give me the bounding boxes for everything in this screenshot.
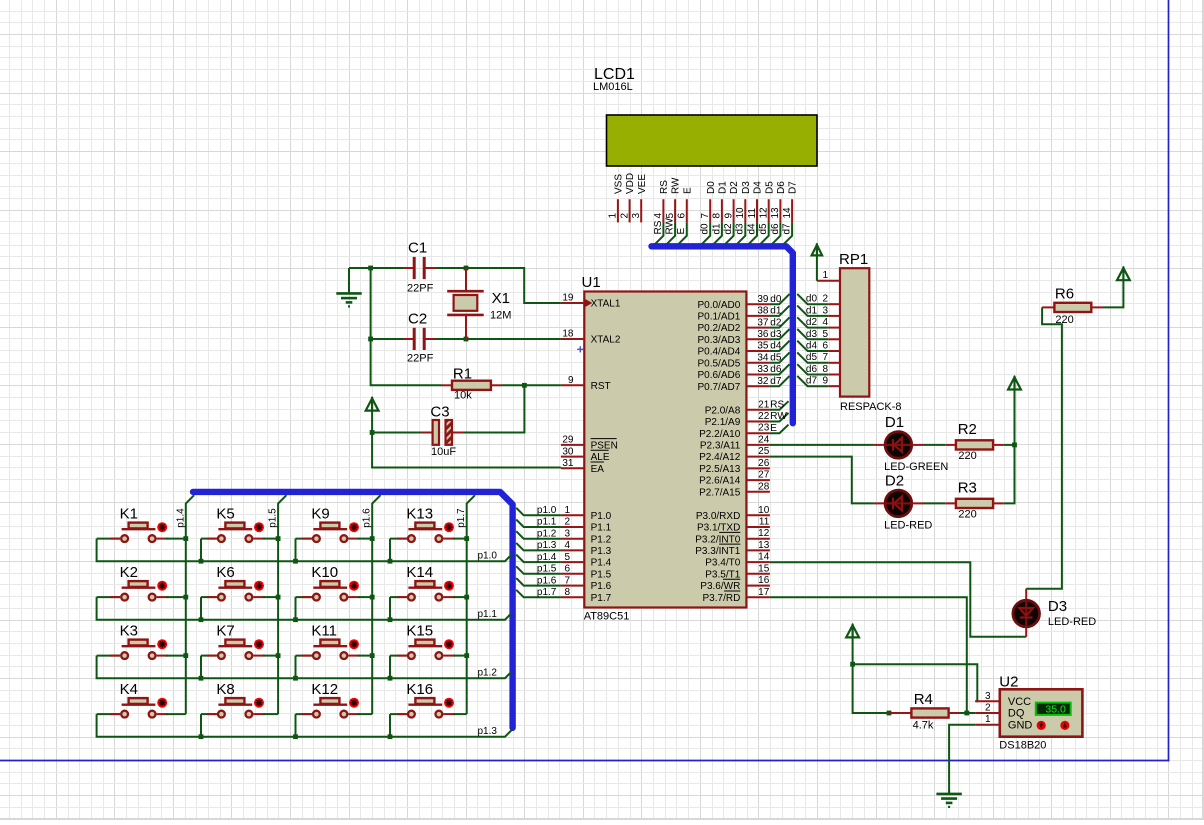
wire net p1.1: bus to U1 P1.1 — [516, 520, 561, 528]
svg-text:XTAL2: XTAL2 — [591, 335, 621, 346]
svg-text:10uF: 10uF — [431, 446, 456, 458]
svg-text:p1.1: p1.1 — [537, 517, 557, 528]
wire net d1: U1 P0.1 to bus — [770, 306, 790, 316]
svg-text:P2.5/A13: P2.5/A13 — [699, 464, 741, 475]
U1 pin 35 P0.4/AD4 — [697, 341, 769, 358]
svg-text:XTAL1: XTAL1 — [591, 299, 621, 310]
junction: R2/VCC rail — [1012, 443, 1017, 448]
U1 pin 1 P1.0 — [561, 505, 612, 522]
junction K16 left/row — [388, 734, 393, 739]
wire net p1.6: keypad column 3 — [372, 495, 380, 714]
RP1 pin 3 — [822, 305, 840, 316]
button K7 — [201, 622, 278, 678]
junction: C1/X1 top — [464, 266, 469, 271]
RP1 pin 6 — [822, 341, 840, 352]
U1 pin 19 XTAL1 — [561, 293, 621, 310]
svg-text:P0.0/AD0: P0.0/AD0 — [697, 300, 740, 311]
svg-text:14: 14 — [758, 552, 770, 563]
svg-text:D4: D4 — [753, 181, 764, 194]
svg-text:9: 9 — [822, 376, 828, 387]
svg-text:D3: D3 — [741, 181, 752, 194]
wire: U1 P3.7 pin17 to DQ — [770, 597, 975, 713]
led D1 LED-GREEN — [874, 414, 948, 473]
U1 pin 16 P3.6/WR — [700, 575, 770, 592]
svg-text:9: 9 — [568, 375, 574, 386]
svg-text:P3.0/RXD: P3.0/RXD — [696, 511, 740, 522]
op U1 chip body AT89C51 — [584, 292, 746, 608]
U1 pin 37 P0.2/AD2 — [697, 317, 769, 334]
svg-text:p1.4: p1.4 — [537, 552, 557, 563]
wire: U2 GND pin1 to ground — [949, 725, 975, 794]
svg-text:RW: RW — [671, 177, 682, 194]
svg-text:p1.2: p1.2 — [537, 528, 557, 539]
svg-text:K8: K8 — [216, 681, 234, 698]
U1 pin 27 P2.6/A14 — [699, 470, 770, 487]
sensor U2 DS18B20 body — [1000, 689, 1083, 736]
marker: small blue cross near XTAL2 — [577, 348, 583, 350]
U1 pin 18 XTAL2 — [561, 329, 621, 346]
U1 pin 39 P0.0/AD0 — [697, 294, 769, 311]
wire net p1.1: keypad row 2 — [97, 597, 512, 620]
wire net d6: bus to RP1 pin8 — [797, 364, 828, 374]
svg-text:K7: K7 — [216, 622, 234, 639]
svg-text:P1.1: P1.1 — [591, 523, 612, 534]
svg-text:X1: X1 — [492, 290, 510, 307]
svg-text:30: 30 — [562, 446, 574, 457]
svg-text:p1.5: p1.5 — [537, 564, 557, 575]
svg-text:d0: d0 — [770, 294, 782, 305]
svg-text:p1.7: p1.7 — [456, 508, 467, 528]
svg-text:d7: d7 — [806, 376, 818, 387]
U1 pin 30 ALE — [561, 446, 610, 463]
svg-text:U1: U1 — [582, 274, 601, 291]
junction K15 left/row — [388, 676, 393, 681]
svg-text:32: 32 — [757, 376, 769, 387]
junction K6 right/column — [276, 595, 281, 600]
svg-text:35: 35 — [757, 341, 769, 352]
svg-text:LED-RED: LED-RED — [884, 520, 932, 532]
wire net d6: U1 P0.6 to bus — [770, 364, 790, 374]
svg-text:LM016L: LM016L — [593, 81, 633, 93]
svg-text:K3: K3 — [120, 622, 138, 639]
wire: RST node down to C3 right — [463, 385, 524, 432]
power VCC arrow (U2) — [846, 625, 859, 637]
svg-text:P1.0: P1.0 — [591, 511, 612, 522]
wire net p1.4: keypad column 1 — [186, 495, 194, 714]
svg-text:d3: d3 — [770, 329, 782, 340]
wire: D2 to R3 — [923, 502, 945, 504]
svg-text:P2.7/A15: P2.7/A15 — [699, 487, 741, 498]
U1 pin 9 RST — [561, 375, 611, 392]
power VCC arrow (reset) — [366, 398, 379, 410]
wire net d2: bus to RP1 pin4 — [797, 317, 828, 327]
wire net p1.4: bus to U1 P1.4 — [516, 555, 561, 563]
svg-text:P2.3/A11: P2.3/A11 — [700, 441, 741, 452]
wire net d4: bus to RP1 pin6 — [797, 341, 828, 351]
U1 pin 17 P3.7/RD — [703, 587, 770, 604]
svg-text:VDD: VDD — [625, 173, 636, 194]
svg-text:E: E — [682, 187, 693, 194]
wire: R6 left down to D3 anode — [1026, 307, 1062, 588]
junction K10 right/column — [370, 595, 375, 600]
RP1 pin 7 — [822, 352, 840, 363]
wire net p1.2: keypad row 3 — [97, 656, 512, 679]
button K11 — [296, 622, 373, 678]
svg-text:d3: d3 — [735, 223, 746, 235]
LCD pin 1 VSS — [608, 174, 625, 223]
svg-text:d0: d0 — [806, 294, 818, 305]
U1 pin 38 P0.1/AD1 — [697, 306, 769, 323]
svg-text:P1.7: P1.7 — [591, 593, 612, 604]
svg-text:K4: K4 — [120, 681, 138, 698]
svg-text:p1.0: p1.0 — [537, 505, 557, 516]
svg-text:d4: d4 — [770, 341, 782, 352]
U2 pin 3 VCC — [975, 691, 1031, 708]
junction K9 right/column — [370, 536, 375, 541]
wire net d5: U1 P0.5 to bus — [770, 352, 790, 362]
svg-text:DS18B20: DS18B20 — [999, 740, 1046, 752]
svg-text:15: 15 — [758, 563, 770, 574]
junction K15 right/column — [464, 653, 469, 658]
junction K5 left/row — [199, 559, 204, 564]
button K8 — [201, 681, 278, 737]
svg-text:VSS: VSS — [614, 174, 625, 194]
wire: R4 right to DQ node — [960, 712, 967, 714]
junction: R4/DQ — [964, 711, 969, 716]
svg-text:P1.3: P1.3 — [591, 546, 612, 557]
U1 pin 14 P3.4/T0 — [705, 552, 770, 569]
junction K9 left/row — [293, 559, 298, 564]
junction: VCC rail split — [850, 662, 855, 667]
bus: LCD to U1/RP1 (blue) — [652, 246, 793, 423]
button K15 — [390, 622, 467, 678]
U1 pin 29 PSEN — [561, 435, 618, 452]
U1 pin 22 P2.1/A9 — [705, 411, 770, 428]
wire net d1: bus to RP1 pin3 — [797, 306, 828, 316]
svg-text:35.0: 35.0 — [1045, 703, 1066, 715]
wire net p1.6: bus to U1 P1.6 — [516, 578, 561, 586]
RP1 pin 1 — [817, 270, 840, 281]
svg-text:4: 4 — [564, 540, 570, 551]
LCD pin 11 D4 — [746, 181, 763, 246]
svg-text:P1.6: P1.6 — [591, 581, 612, 592]
U1 pin 2 P1.1 — [561, 517, 612, 534]
wire: C1 right to crystal node — [436, 267, 466, 269]
svg-text:P0.1/AD1: P0.1/AD1 — [697, 312, 740, 323]
button K13 — [390, 505, 467, 561]
svg-text:P0.7/AD7: P0.7/AD7 — [697, 382, 740, 393]
U1 pin 21 P2.0/A8 — [705, 399, 770, 416]
LCD pin 3 VEE — [631, 174, 648, 223]
svg-text:d1: d1 — [770, 306, 782, 317]
wire net RW: U1 P2.1 to bus — [770, 413, 789, 422]
U1 pin 6 P1.5 — [561, 564, 612, 581]
wire: R6 right to VCC arrow — [1103, 280, 1123, 307]
LCD pin 7 D0 — [700, 181, 717, 246]
svg-text:39: 39 — [757, 294, 769, 305]
svg-text:D5: D5 — [764, 181, 775, 194]
wire net p1.2: bus to U1 P1.2 — [516, 531, 561, 539]
svg-text:p1.6: p1.6 — [537, 575, 557, 586]
wire net d7: bus to RP1 pin9 — [797, 376, 828, 386]
svg-text:P2.2/A10: P2.2/A10 — [699, 429, 741, 440]
U1 pin 36 P0.3/AD3 — [697, 329, 769, 346]
svg-text:22: 22 — [758, 411, 770, 422]
svg-text:RS: RS — [653, 220, 664, 234]
wire: C3 left from VCC node — [372, 432, 421, 434]
svg-text:EA: EA — [591, 464, 605, 475]
svg-text:1: 1 — [985, 714, 991, 725]
svg-text:P3.5/T1: P3.5/T1 — [705, 569, 740, 580]
U1 pin 12 P3.2/INT0 — [695, 528, 770, 545]
svg-text:3: 3 — [564, 528, 570, 539]
svg-text:23: 23 — [758, 423, 770, 434]
LCD pin 2 VDD — [619, 173, 636, 223]
respack RP1 body — [840, 268, 869, 396]
svg-text:10k: 10k — [454, 390, 472, 402]
svg-text:C2: C2 — [408, 311, 427, 328]
ground (U2) — [948, 790, 950, 794]
RP1 pin 2 — [822, 294, 840, 305]
power VCC arrow (R6) — [1117, 268, 1130, 280]
junction K5 right/column — [276, 536, 281, 541]
svg-text:P1.2: P1.2 — [591, 534, 612, 545]
svg-text:K10: K10 — [311, 564, 338, 581]
wire: VCC node down to U1 EA pin31 — [372, 433, 561, 468]
svg-text:25: 25 — [758, 446, 770, 457]
junction K1 right/column — [183, 536, 188, 541]
svg-text:K15: K15 — [406, 622, 433, 639]
svg-text:P2.4/A12: P2.4/A12 — [699, 452, 741, 463]
svg-text:2: 2 — [822, 294, 828, 305]
svg-text:d1: d1 — [711, 223, 722, 235]
junction K10 left/row — [293, 617, 298, 622]
led D3 LED-RED — [1013, 589, 1096, 637]
junction K6 left/row — [199, 617, 204, 622]
svg-text:p1.2: p1.2 — [478, 668, 498, 679]
svg-text:13: 13 — [758, 540, 770, 551]
U1 pin 4 P1.3 — [561, 540, 612, 557]
svg-text:28: 28 — [758, 481, 770, 492]
svg-text:P3.4/T0: P3.4/T0 — [705, 558, 740, 569]
svg-text:K12: K12 — [311, 681, 338, 698]
svg-text:U2: U2 — [999, 674, 1018, 691]
svg-text:P1.5: P1.5 — [591, 569, 612, 580]
junction: C2/X1 bottom — [464, 337, 469, 342]
junction K14 right/column — [464, 595, 469, 600]
LCD pin 4 RS — [653, 180, 670, 246]
led D2 LED-RED — [874, 473, 933, 532]
svg-text:R2: R2 — [958, 421, 977, 438]
svg-text:P3.3/INT1: P3.3/INT1 — [695, 546, 740, 557]
button K14 — [390, 564, 467, 620]
svg-text:R6: R6 — [1055, 285, 1074, 302]
LCD pin 10 D3 — [735, 181, 752, 246]
U1 pin 3 P1.2 — [561, 528, 612, 545]
junction K12 left/row — [293, 734, 298, 739]
wire net p1.3: bus to U1 P1.3 — [516, 543, 561, 551]
svg-text:D1: D1 — [885, 414, 904, 431]
svg-text:p1.3: p1.3 — [537, 540, 557, 551]
svg-text:RP1: RP1 — [839, 251, 868, 268]
LCD pin 8 D1 — [711, 181, 728, 246]
button K1 — [97, 505, 186, 542]
svg-text:K16: K16 — [406, 681, 433, 698]
svg-text:P3.7/RD: P3.7/RD — [703, 593, 741, 604]
svg-text:D1: D1 — [718, 181, 729, 194]
U1 pin 23 P2.2/A10 — [699, 423, 770, 440]
wire net d0: U1 P0.0 to bus — [770, 294, 790, 304]
U1 pin 34 P0.5/AD5 — [697, 352, 769, 369]
U1 pin 7 P1.6 — [561, 575, 612, 592]
svg-text:RW: RW — [770, 411, 787, 422]
svg-text:P0.6/AD6: P0.6/AD6 — [697, 370, 740, 381]
svg-text:d7: d7 — [782, 223, 793, 235]
wire net p1.5: keypad column 2 — [278, 495, 286, 714]
svg-text:D6: D6 — [776, 181, 787, 194]
capacitor C1 — [404, 240, 436, 295]
svg-text:d3: d3 — [806, 329, 818, 340]
junction: rail/C1 left — [368, 266, 373, 271]
svg-text:6: 6 — [822, 341, 828, 352]
svg-text:2: 2 — [985, 703, 991, 714]
svg-text:LED-GREEN: LED-GREEN — [884, 461, 948, 473]
LCD pin 9 D2 — [723, 181, 740, 246]
svg-text:7: 7 — [822, 352, 828, 363]
resistor R1 10k — [441, 366, 502, 402]
svg-text:LED-RED: LED-RED — [1048, 616, 1096, 628]
U2 temperature display 35.0 — [1036, 703, 1071, 716]
U2 pin 2 DQ — [975, 703, 1025, 720]
wire net d5: bus to RP1 pin7 — [797, 352, 828, 362]
wire: RP1 pin1 to VCC arrow — [816, 255, 818, 280]
svg-text:D0: D0 — [706, 181, 717, 194]
wire: C2 right to crystal bottom / U1 XTAL2 pin18 — [436, 338, 561, 340]
svg-text:E: E — [676, 228, 687, 235]
svg-text:3: 3 — [822, 305, 828, 316]
svg-text:d2: d2 — [806, 317, 818, 328]
svg-text:P1.4: P1.4 — [591, 558, 612, 569]
svg-text:d5: d5 — [770, 352, 782, 363]
wire: D1 to R2 — [923, 444, 945, 446]
svg-text:K1: K1 — [120, 505, 138, 522]
power VCC arrow (RP1) — [812, 245, 823, 256]
resistor R4 4.7k — [889, 691, 960, 732]
wire: VCC rail down to R3 — [1004, 390, 1015, 504]
svg-text:d1: d1 — [806, 305, 818, 316]
svg-text:VCC: VCC — [1008, 696, 1031, 708]
RP1 pin 5 — [822, 329, 840, 340]
sheet border (blue) — [1168, 0, 1170, 762]
svg-text:3: 3 — [985, 691, 991, 702]
LCD pin 14 D7 — [782, 181, 799, 246]
button K16 — [390, 681, 467, 737]
RP1 pin 8 — [822, 364, 840, 375]
svg-text:10: 10 — [758, 505, 770, 516]
svg-text:D2: D2 — [885, 473, 904, 490]
wire net d3: U1 P0.3 to bus — [770, 329, 790, 339]
U1 pin 11 P3.1/TXD — [697, 517, 770, 534]
wire net d4: U1 P0.4 to bus — [770, 341, 790, 351]
svg-text:d2: d2 — [770, 317, 782, 328]
wire: U1 P2.3 pin24 to D1 — [770, 444, 874, 446]
svg-text:AT89C51: AT89C51 — [584, 611, 630, 623]
svg-text:220: 220 — [958, 450, 976, 462]
wire: VCC rail down to R4 left — [853, 664, 889, 713]
wire net p1.0: bus to U1 P1.0 — [516, 508, 561, 516]
svg-text:RS: RS — [659, 180, 670, 194]
svg-text:D7: D7 — [788, 181, 799, 194]
svg-text:5: 5 — [564, 552, 570, 563]
resistor R3 220 — [945, 480, 1004, 521]
svg-text:8: 8 — [564, 587, 570, 598]
svg-text:p1.4: p1.4 — [175, 508, 186, 528]
svg-text:RS: RS — [770, 400, 784, 411]
svg-text:34: 34 — [757, 352, 769, 363]
svg-text:K11: K11 — [311, 622, 337, 639]
wire: VCC arrow to U2 VCC pin3 — [853, 637, 978, 701]
wire net p1.0: keypad row 1 — [97, 539, 512, 562]
LCD pin 6 E — [676, 187, 693, 246]
crystal X1 12M — [447, 268, 511, 339]
svg-text:C1: C1 — [408, 240, 427, 257]
svg-text:RESPACK-8: RESPACK-8 — [840, 401, 902, 413]
svg-text:K5: K5 — [216, 505, 234, 522]
junction K11 left/row — [293, 676, 298, 681]
svg-text:P0.3/AD3: P0.3/AD3 — [697, 335, 740, 346]
svg-text:K9: K9 — [311, 505, 329, 522]
wire: node to U1 XTAL1 pin19 — [466, 268, 561, 303]
svg-text:d2: d2 — [723, 223, 734, 235]
U1 pin 24 P2.3/A11 — [700, 434, 770, 451]
svg-text:p1.7: p1.7 — [537, 587, 557, 598]
junction K7 right/column — [276, 653, 281, 658]
U1 pin 8 P1.7 — [561, 587, 612, 604]
LCD LCD1 body — [607, 115, 818, 166]
button K2 — [97, 564, 186, 601]
wire net d7: U1 P0.7 to bus — [770, 376, 790, 386]
svg-text:P0.5/AD5: P0.5/AD5 — [697, 358, 740, 369]
wire net p1.7: keypad column 4 — [467, 495, 475, 714]
svg-text:22PF: 22PF — [407, 353, 434, 365]
wire net p1.5: bus to U1 P1.5 — [516, 566, 561, 574]
svg-text:R3: R3 — [958, 480, 977, 497]
svg-text:29: 29 — [562, 435, 574, 446]
junction K14 left/row — [388, 617, 393, 622]
U1 pin 33 P0.6/AD6 — [697, 364, 769, 381]
U1 pin 5 P1.4 — [561, 552, 612, 569]
svg-text:p1.5: p1.5 — [268, 508, 279, 528]
svg-text:P2.1/A9: P2.1/A9 — [705, 417, 741, 428]
svg-text:d6: d6 — [770, 364, 782, 375]
wire: R2 to VCC rail — [1004, 444, 1015, 446]
svg-text:d7: d7 — [770, 376, 782, 387]
svg-text:d5: d5 — [806, 352, 818, 363]
junction: rail/C2 — [368, 337, 373, 342]
svg-text:22PF: 22PF — [407, 283, 434, 295]
svg-text:VEE: VEE — [637, 174, 648, 194]
button K10 — [296, 564, 373, 620]
button K5 — [201, 505, 278, 561]
svg-text:d6: d6 — [806, 364, 818, 375]
svg-text:RW: RW — [665, 217, 676, 234]
svg-text:P2.6/A14: P2.6/A14 — [699, 476, 741, 487]
junction K3 right/column — [183, 653, 188, 658]
junction K13 left/row — [388, 559, 393, 564]
wire net d0: bus to RP1 pin2 — [797, 294, 828, 304]
svg-text:d4: d4 — [746, 223, 757, 235]
svg-text:11: 11 — [759, 517, 770, 528]
